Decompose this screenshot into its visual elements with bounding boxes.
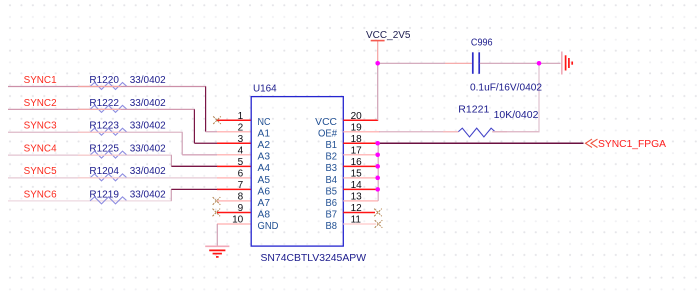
svg-text:SN74CBTLV3245APW: SN74CBTLV3245APW xyxy=(261,253,367,264)
U164 pin numbers 1-10 xyxy=(232,111,244,226)
svg-text:B5: B5 xyxy=(326,186,338,197)
wire SYNC2 left segment xyxy=(8,108,126,110)
no-connect X pin 9 xyxy=(213,209,221,217)
svg-text:B4: B4 xyxy=(326,175,338,186)
resistor R1220 xyxy=(89,75,166,90)
resistor R1219 xyxy=(89,189,166,204)
svg-text:3: 3 xyxy=(238,134,244,145)
svg-text:B7: B7 xyxy=(326,209,338,220)
wire SYNC5 into pin 6 xyxy=(126,177,217,179)
wire SYNC2 to bend xyxy=(126,108,195,110)
wire SYNC6 into pin 7 xyxy=(171,188,217,190)
svg-text:A3: A3 xyxy=(258,152,271,163)
U164 pin 6 stub xyxy=(217,177,251,179)
svg-text:SYNC2: SYNC2 xyxy=(24,98,57,109)
svg-text:33/0402: 33/0402 xyxy=(130,189,166,200)
no-connect X pin 1 xyxy=(213,116,221,124)
U164 pin 15 stub xyxy=(343,177,378,179)
wire salmon segment y=132.24 xyxy=(78,131,121,133)
svg-text:C996: C996 xyxy=(471,37,493,48)
svg-text:SYNC1: SYNC1 xyxy=(24,75,57,86)
svg-text:SYNC4: SYNC4 xyxy=(24,144,57,155)
svg-text:VCC_2V5: VCC_2V5 xyxy=(366,30,411,41)
U164 pin 20 stub xyxy=(343,119,378,121)
svg-text:R1219: R1219 xyxy=(89,189,119,200)
U164 pin names A-side xyxy=(258,117,279,232)
ground symbol left xyxy=(205,246,229,257)
svg-text:R1220: R1220 xyxy=(89,75,119,86)
svg-text:SYNC6: SYNC6 xyxy=(24,189,57,200)
wire SYNC3 into pin 4 xyxy=(182,154,217,156)
no-connect X pin 12 xyxy=(374,209,382,217)
svg-text:9: 9 xyxy=(238,203,244,214)
resistor R1223 xyxy=(89,121,166,136)
wire B-bus vertical xyxy=(377,143,379,201)
wire SYNC1 to bend xyxy=(126,86,206,88)
wire SYNC4 left segment xyxy=(8,154,126,156)
svg-text:SYNC5: SYNC5 xyxy=(24,166,57,177)
wire GND drop xyxy=(216,224,218,246)
wire salmon segment y=177.85 xyxy=(78,177,121,179)
U164 pin 18 stub xyxy=(343,142,377,144)
U164 pin 7 stub xyxy=(217,188,251,190)
svg-text:10: 10 xyxy=(232,215,244,226)
svg-text:A5: A5 xyxy=(258,175,271,186)
svg-text:R1221: R1221 xyxy=(458,105,489,116)
wire SYNC3 left segment xyxy=(8,131,126,133)
U164 pin names B-side xyxy=(315,117,337,232)
svg-text:R1225: R1225 xyxy=(89,144,119,155)
resistor R1221 xyxy=(458,105,539,137)
svg-text:SYNC3: SYNC3 xyxy=(24,121,57,132)
svg-text:A4: A4 xyxy=(258,163,271,174)
wire SYNC6 left segment xyxy=(8,200,126,202)
wire capacitor to ground xyxy=(480,62,561,64)
wire SYNC6 vertical xyxy=(170,189,172,200)
U164 pin 16 stub xyxy=(343,165,378,167)
svg-text:VCC: VCC xyxy=(315,117,337,128)
svg-text:A1: A1 xyxy=(258,129,271,140)
svg-text:SYNC1_FPGA: SYNC1_FPGA xyxy=(598,139,666,150)
svg-text:GND: GND xyxy=(258,221,279,232)
svg-text:U164: U164 xyxy=(253,84,277,95)
wire salmon segment right of R1221 xyxy=(492,131,507,133)
svg-text:B2: B2 xyxy=(326,152,338,163)
wire SYNC2 into pin 3 xyxy=(194,142,217,144)
svg-text:10K/0402: 10K/0402 xyxy=(494,110,539,121)
off-page connector chevrons xyxy=(586,139,598,147)
wire SYNC3 to bend xyxy=(126,131,183,133)
wire SYNC2 vertical xyxy=(193,109,195,143)
U164 pin 5 stub xyxy=(217,165,251,167)
U164 pin 1 stub xyxy=(217,119,251,121)
svg-text:A6: A6 xyxy=(258,186,271,197)
wire SYNC4 to bend xyxy=(126,154,172,156)
svg-text:0.1uF/16V/0402: 0.1uF/16V/0402 xyxy=(470,83,542,94)
U164 pin 19 stub xyxy=(343,131,380,133)
wire VCC riser xyxy=(377,63,379,120)
wire salmon segment left of R1221 xyxy=(443,131,458,133)
op-amp/IC U164 body xyxy=(251,97,343,247)
ground symbol right xyxy=(562,52,572,75)
wire SYNC4 into pin 5 xyxy=(171,165,217,167)
U164 pin 4 stub xyxy=(217,154,251,156)
svg-text:NC: NC xyxy=(258,117,271,128)
wire R1221 to riser xyxy=(492,131,539,133)
svg-text:8: 8 xyxy=(238,192,244,203)
wire salmon segment y=155.11 xyxy=(78,154,121,156)
U164 pin numbers 20-11 xyxy=(351,111,363,226)
wire salmon segment y=109.37 xyxy=(78,108,121,110)
no-connect X pin 11 xyxy=(375,220,383,228)
wire riser to cap junction xyxy=(538,63,540,131)
power symbol VCC_2V5 xyxy=(371,40,385,42)
junction dots B1-B5 xyxy=(375,141,380,192)
U164 pin 9 stub xyxy=(217,211,251,213)
svg-text:A7: A7 xyxy=(258,198,271,209)
capacitor C996 xyxy=(470,37,542,93)
wire SYNC1 left segment xyxy=(8,86,126,88)
U164 pin 14 stub xyxy=(343,188,378,190)
wire SYNC3 vertical xyxy=(181,132,183,155)
svg-text:33/0402: 33/0402 xyxy=(130,98,166,109)
wire VCC rail to capacitor xyxy=(378,62,445,64)
junction dot cap tee xyxy=(537,61,542,66)
U164 pin 17 stub xyxy=(343,154,378,156)
no-connect X pin 8 xyxy=(213,197,221,205)
svg-text:R1223: R1223 xyxy=(89,121,119,132)
svg-text:B8: B8 xyxy=(326,221,338,232)
wire SYNC5 left segment xyxy=(8,177,126,179)
svg-text:R1222: R1222 xyxy=(89,98,119,109)
svg-text:7: 7 xyxy=(238,180,244,191)
wire SYNC1 vertical xyxy=(205,87,207,132)
svg-text:A8: A8 xyxy=(258,209,271,220)
svg-text:2: 2 xyxy=(238,122,244,133)
wire salmon segment y=86.5 xyxy=(78,86,121,88)
svg-text:B1: B1 xyxy=(326,140,338,151)
resistor R1222 xyxy=(89,98,166,113)
wire SYNC4 vertical xyxy=(170,155,172,166)
svg-text:33/0402: 33/0402 xyxy=(130,121,166,132)
svg-text:OE#: OE# xyxy=(318,129,337,140)
wire OE# to R1221 xyxy=(379,131,458,133)
svg-text:4: 4 xyxy=(238,145,244,156)
junction dot VCC tee xyxy=(375,61,380,66)
resistor R1225 xyxy=(89,144,166,159)
svg-text:33/0402: 33/0402 xyxy=(130,144,166,155)
wire SYNC1_FPGA xyxy=(378,142,584,144)
U164 pin 3 stub xyxy=(217,142,251,144)
svg-text:A2: A2 xyxy=(258,140,271,151)
wire SYNC1 into pin 2 xyxy=(206,131,218,133)
U164 pin 13 stub xyxy=(343,200,378,202)
U164 pin 8 stub xyxy=(217,200,251,202)
svg-text:1: 1 xyxy=(238,111,244,122)
svg-text:B3: B3 xyxy=(326,163,338,174)
U164 pin 12 stub xyxy=(343,211,375,213)
svg-text:R1204: R1204 xyxy=(89,166,119,177)
U164 pin 10 stub xyxy=(217,223,251,225)
U164 pin 2 stub xyxy=(217,131,251,133)
resistor R1204 xyxy=(89,166,166,181)
svg-text:5: 5 xyxy=(238,157,244,168)
svg-text:33/0402: 33/0402 xyxy=(130,75,166,86)
U164 pin 11 stub xyxy=(343,223,376,225)
svg-text:B6: B6 xyxy=(326,198,338,209)
svg-text:33/0402: 33/0402 xyxy=(130,166,166,177)
wire SYNC6 to bend xyxy=(126,200,172,202)
svg-text:6: 6 xyxy=(238,169,244,180)
